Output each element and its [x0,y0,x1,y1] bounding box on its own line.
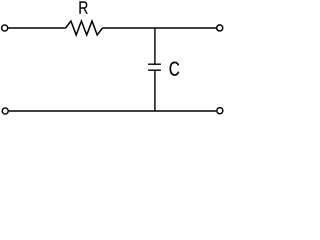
wire (resistor to top-right terminal) [103,27,217,29]
terminal (output bottom-right) [217,108,223,114]
capacitor C [148,64,161,70]
terminal (input bottom-left) [2,108,8,114]
wire (bottom rail) [9,110,216,112]
resistor R [66,21,103,35]
wire (top-left lead to resistor) [8,27,65,29]
label R [79,1,87,13]
label C [170,62,180,76]
terminal (input top-left) [2,25,8,31]
wire (capacitor to bottom wire) [154,70,156,111]
terminal (output top-right) [217,25,223,31]
node (top junction at capacitor branch) [154,28,156,64]
